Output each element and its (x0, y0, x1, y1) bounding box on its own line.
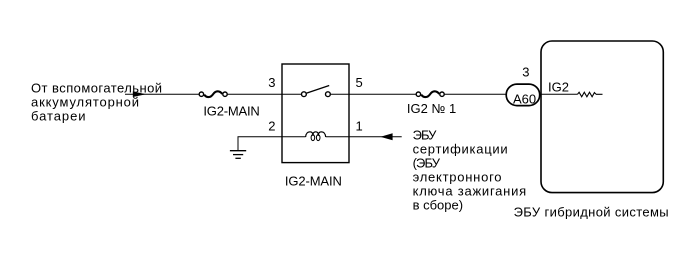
label: ЭБУ сертификации (ЭБУ электронного ключа зажигания в сборе) (413, 128, 527, 213)
relay box IG2-MAIN (282, 64, 349, 163)
wire: fuse IG2-MAIN to relay pin 3 (228, 93, 283, 95)
svg-text:(ЭБУ: (ЭБУ (413, 156, 441, 171)
svg-text:аккумуляторной: аккумуляторной (31, 95, 140, 110)
wire: A60 to resistor (net IG2 inside ECU) (541, 93, 578, 95)
svg-text:ЭБУ гибридной системы: ЭБУ гибридной системы (514, 205, 669, 220)
wire: resistor stub (596, 93, 603, 95)
svg-text:IG2-MAIN: IG2-MAIN (203, 104, 259, 119)
wire: relay pin 2 to ground (238, 137, 282, 151)
svg-text:2: 2 (268, 119, 275, 134)
connector A60 (506, 84, 540, 106)
arrowhead: to certification ECU (380, 133, 392, 140)
svg-text:IG2: IG2 (548, 80, 569, 95)
fuse IG2 №1 (416, 91, 444, 97)
resistor (ECU internal load) (578, 92, 597, 97)
ECU box: ЭБУ гибридной системы (541, 41, 663, 193)
wire: fuse IG2 №1 to connector A60 (445, 93, 508, 95)
wire: relay pin 5 to fuse IG2 №1 (349, 93, 416, 95)
svg-text:3: 3 (522, 65, 529, 80)
svg-text:1: 1 (356, 119, 363, 134)
svg-text:От вспомогательной: От вспомогательной (31, 81, 163, 96)
svg-text:IG2-MAIN: IG2-MAIN (285, 173, 342, 188)
svg-text:ключа зажигания: ключа зажигания (413, 183, 527, 198)
svg-text:батареи: батареи (31, 109, 87, 124)
arrowhead: battery feed direction (133, 91, 146, 97)
wire: relay pin 1 to certification ECU (349, 136, 402, 138)
label: От вспомогательной аккумуляторной батареи (31, 81, 163, 124)
svg-text:3: 3 (268, 75, 275, 90)
fuse IG2-MAIN (199, 91, 227, 97)
svg-text:в сборе): в сборе) (413, 197, 463, 212)
svg-text:IG2 № 1: IG2 № 1 (407, 101, 456, 116)
svg-text:электронного: электронного (413, 169, 503, 184)
ground (230, 151, 246, 159)
wire: battery feed to fuse IG2-MAIN (125, 93, 199, 95)
relay switch contact (282, 86, 349, 97)
svg-text:ЭБУ: ЭБУ (413, 128, 438, 143)
relay coil (282, 132, 349, 141)
svg-text:A60: A60 (513, 92, 536, 107)
svg-text:5: 5 (356, 75, 363, 90)
svg-text:сертификации: сертификации (413, 142, 509, 157)
